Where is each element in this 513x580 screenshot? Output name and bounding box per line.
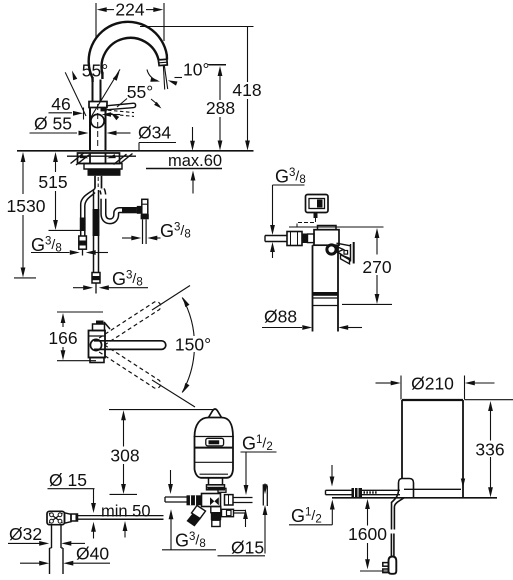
filter head body: [314, 230, 339, 246]
dim 1600 bottom tick: [360, 570, 389, 572]
filter cartridge cylinder: [312, 245, 314, 331]
cartridge lines: [313, 297, 339, 299]
spout left side: [91, 77, 93, 82]
dim 224 extension line left: [95, 3, 97, 38]
faucet shank below deck: [94, 176, 96, 189]
svg-text:10°: 10°: [183, 60, 209, 80]
center hose dark segment: [93, 209, 100, 236]
deck countertop line: [17, 150, 254, 152]
svg-text:Ø210: Ø210: [411, 374, 454, 394]
dim 46 right arrow: [102, 112, 112, 116]
55deg right arc arrowhead: [113, 72, 120, 81]
center hose tail: [95, 283, 97, 294]
valve diagonal port: [192, 506, 206, 519]
dim 270 extension line: [289, 226, 384, 228]
valve right outlet nut: [225, 495, 234, 505]
valve outlet pipe right: [233, 497, 253, 499]
svg-text:55°: 55°: [127, 82, 153, 102]
dim 46 tick: [83, 108, 85, 120]
check valve body: [142, 199, 148, 214]
tank inlet nut: [352, 488, 363, 497]
swivel reference line lower: [152, 380, 195, 407]
svg-text:1530: 1530: [7, 196, 46, 216]
dim 308 bottom tick: [110, 493, 138, 495]
S-hose break gap: [100, 195, 108, 199]
G1/2-2 up arrow: [330, 500, 335, 510]
power cord break: [390, 534, 392, 557]
corner down pipe upper: [51, 525, 53, 548]
dim 270 bottom tick: [342, 303, 392, 305]
dim 336 ext line: [465, 399, 513, 401]
base lower plate: [84, 164, 122, 170]
dim 1600 down arrow: [367, 543, 369, 560]
spout outlet mousseur: [158, 59, 167, 65]
dim min50 underline: [101, 519, 164, 521]
cartridge top line: [313, 244, 339, 246]
svg-text:270: 270: [362, 257, 391, 277]
dim 308 arrows: [121, 410, 126, 420]
body circle joint: [91, 114, 104, 127]
55deg-2 right leader: [151, 99, 160, 106]
spray direction line: [164, 66, 167, 89]
dim 308 top tick: [109, 409, 213, 411]
dim Dia15-2 down arrow: [264, 484, 266, 486]
spout tube end: [166, 55, 169, 60]
dim 288 line arrows: [218, 66, 223, 76]
S-hose dark segment: [122, 207, 137, 213]
svg-text:max.60: max.60: [168, 152, 222, 170]
tank band lines: [195, 436, 234, 438]
display cable dash-dot: [297, 218, 316, 229]
label G1/2 top underline: [241, 451, 277, 453]
faucet spout outer arc: [89, 22, 167, 78]
corner connector cap: [71, 514, 78, 521]
arc arrowhead bottom: [183, 383, 190, 393]
side view faucet body: [89, 331, 106, 358]
power cord elbow: [402, 479, 414, 498]
wall bracket foot: [341, 255, 350, 264]
tank bottom curve: [195, 470, 234, 478]
svg-text:418: 418: [232, 80, 261, 100]
dim min50 up arrow: [123, 521, 128, 531]
dim Dia15-1 underline: [48, 488, 95, 490]
svg-text:Ø34: Ø34: [138, 123, 171, 143]
spout axis line: [163, 66, 164, 90]
tank neck: [209, 478, 223, 485]
dim Dia15-2 up arrow: [263, 505, 268, 515]
lever arm solid: [106, 103, 134, 106]
valve bottom port: [211, 507, 221, 513]
svg-text:308: 308: [110, 446, 139, 466]
dim 515 bottom arrow: [55, 191, 57, 220]
center hose nut: [92, 273, 100, 284]
filter head cap: [318, 226, 337, 230]
svg-text:150°: 150°: [175, 335, 211, 355]
dim 336 line: [488, 401, 493, 411]
svg-text:Ø 15: Ø 15: [49, 470, 87, 490]
corner connector pipe: [78, 515, 164, 517]
55deg reference line left: [65, 72, 86, 116]
storage tank bottom line: [404, 488, 461, 490]
valve lower right port: [222, 509, 234, 516]
label G3/8 center hose arrows: [73, 287, 84, 289]
dim 46 underline and arrow: [49, 112, 73, 114]
dim 150deg text mask: [172, 336, 214, 352]
cartridge dark band: [313, 292, 339, 296]
label G3/8 check hose arrows: [122, 237, 132, 239]
filter display unit: [306, 195, 329, 213]
power plug prongs: [383, 563, 389, 567]
dim 166 bottom tick: [57, 360, 96, 362]
tank label plate: [206, 438, 224, 446]
svg-text:Ø 55: Ø 55: [34, 114, 72, 134]
valve neck dark row: [208, 487, 224, 490]
G3/8 filter dim up arrow: [270, 242, 275, 252]
left hose: [80, 204, 82, 236]
svg-text:515: 515: [38, 172, 67, 192]
dim 224 line and arrows: [97, 7, 107, 12]
dim 515 top arrow: [53, 152, 58, 162]
dim 10deg right arrow: [175, 77, 183, 79]
dim Dia34 arrow: [107, 131, 117, 136]
dashed arm lower: [99, 345, 161, 389]
dim Dia88 arrows: [262, 327, 302, 329]
wall bracket arm: [336, 243, 351, 259]
hose branch left curve: [81, 189, 95, 205]
dim 166 top tick: [57, 311, 103, 313]
dim max60 up arrow: [191, 171, 196, 181]
side view foot: [90, 358, 104, 363]
dim 10deg arc left: [147, 70, 158, 81]
svg-text:Ø40: Ø40: [76, 544, 109, 564]
spout arm side view: [94, 341, 166, 350]
tank side flow arrow: [461, 479, 465, 488]
pipe break marks: [262, 485, 264, 506]
counter underside line: [146, 168, 222, 170]
tank neck nut: [207, 485, 225, 490]
dim Dia34 label line: [139, 142, 176, 144]
valve main body: [202, 494, 221, 507]
Dia15-1 down arrow: [93, 489, 95, 504]
valve inlet pipe: [165, 496, 187, 498]
Dia15-1 up arrow: [91, 522, 96, 532]
dim Dia32 arrows: [8, 542, 40, 544]
valve left nut: [187, 495, 203, 505]
faucet neck: [92, 80, 94, 102]
valve inlet dim up arrow: [169, 509, 174, 519]
inlet valve block: [287, 232, 302, 246]
center hose: [93, 190, 95, 273]
55deg-2 leader arrow to lever: [117, 99, 127, 108]
corner connector cone: [65, 513, 72, 523]
cartridge collar: [89, 102, 107, 108]
check valve junction block: [137, 206, 142, 214]
power cord upper: [392, 490, 399, 530]
svg-text:224: 224: [115, 0, 144, 19]
swivel arc 150: [182, 298, 194, 393]
svg-text:min 50: min 50: [101, 503, 151, 521]
storage tank top: [402, 399, 463, 401]
dim 270 line: [375, 228, 380, 238]
dim 166 arrows: [61, 313, 66, 323]
label G3/8 boiler underline: [162, 549, 216, 551]
faucet spout inner arc: [102, 38, 159, 74]
label G1/2 bottom underline: [289, 524, 332, 526]
filter clamp ring: [327, 245, 336, 254]
dim 1530 top arrow: [21, 152, 26, 162]
power plug body: [389, 557, 397, 574]
corner down pipe lower: [49, 548, 51, 574]
dim Dia55 line arrow: [30, 132, 78, 134]
side view pivot ring: [90, 339, 101, 350]
G1/2 dim down arrow: [245, 452, 247, 486]
filter inlet pipe: [265, 235, 287, 237]
svg-text:1600: 1600: [348, 524, 387, 544]
dim 1600 up arrow: [365, 499, 370, 509]
G1/2-2 dim shaft: [331, 509, 333, 525]
lever arm dashed alternate position: [108, 110, 134, 112]
dim max60 down arrow: [192, 127, 194, 141]
dim Dia210 ext lines: [400, 376, 402, 400]
deck hatch arrows: [80, 154, 89, 158]
left hose nut: [79, 236, 87, 249]
wall bracket flange: [350, 244, 352, 262]
mounting nut black band: [88, 169, 121, 176]
55deg reference line right: [91, 69, 120, 117]
dim Dia15-2 underline: [218, 555, 266, 557]
dim 10deg ref tick: [208, 64, 226, 66]
boiler tank body: [194, 436, 196, 470]
check valve lower pipe: [142, 219, 144, 244]
svg-text:Ø15: Ø15: [231, 538, 264, 558]
ref line spout top to 418: [140, 26, 254, 28]
dim 1530 bottom arrow: [22, 215, 24, 268]
dim 288 top tick: [209, 64, 226, 66]
boiler tank cap: [209, 409, 222, 418]
tank skirt line: [200, 473, 229, 475]
dim Dia210 arrows: [376, 382, 392, 384]
deck second line: [67, 155, 136, 157]
check valve nut: [141, 214, 149, 219]
deck hatch diagonal right: [114, 154, 127, 164]
inlet nuts: [302, 234, 308, 244]
boiler tank dome: [195, 418, 234, 438]
label G3/8 left hose arrows: [31, 252, 70, 254]
svg-text:166: 166: [48, 328, 77, 348]
svg-text:55°: 55°: [82, 61, 108, 81]
G3/8 filter dim down arrow: [272, 185, 274, 226]
corner connector flange: [47, 511, 65, 524]
left hose tail: [82, 249, 84, 255]
dashed arm upper: [99, 302, 161, 346]
shank through plate: [89, 153, 91, 164]
dim 224 extension line right: [163, 3, 165, 41]
tank inlet braid dots: [364, 491, 366, 493]
dim 418 line arrows: [247, 27, 249, 83]
G1/2 dim up arrow: [243, 509, 248, 519]
svg-text:Ø88: Ø88: [264, 307, 297, 327]
svg-text:Ø32: Ø32: [9, 524, 42, 544]
svg-text:336: 336: [475, 440, 504, 460]
S-hose trap to check valve: [102, 190, 137, 222]
lever root: [101, 107, 107, 111]
dim 1530 bottom tick: [14, 277, 36, 279]
55deg left arc arrowhead: [72, 71, 77, 81]
body centerline dashed: [97, 104, 99, 149]
tank inlet pipe: [326, 489, 401, 491]
display stem: [314, 213, 318, 219]
valve lower right stub: [234, 510, 247, 512]
side view faucet top detail: [93, 324, 105, 331]
shelf line: [332, 497, 497, 499]
swivel reference line upper: [152, 286, 190, 311]
G1/2-2 down arrow: [331, 465, 333, 477]
escutcheon plate: [78, 153, 120, 164]
storage tank sides: [401, 400, 403, 479]
svg-text:288: 288: [206, 98, 235, 118]
left hose dark segment: [80, 218, 86, 232]
deck hatch diagonal left: [71, 153, 84, 163]
faucet body: [89, 108, 91, 151]
arc arrowhead top: [183, 297, 190, 307]
label G3/8 filter underline: [273, 184, 305, 186]
dim Dia40 arrows: [20, 562, 40, 564]
svg-text:46: 46: [51, 94, 70, 114]
valve inlet dim down arrow: [170, 470, 172, 485]
side view body lines: [89, 335, 106, 337]
dim 515 bottom tick: [49, 229, 82, 231]
valve top right block: [218, 488, 226, 492]
